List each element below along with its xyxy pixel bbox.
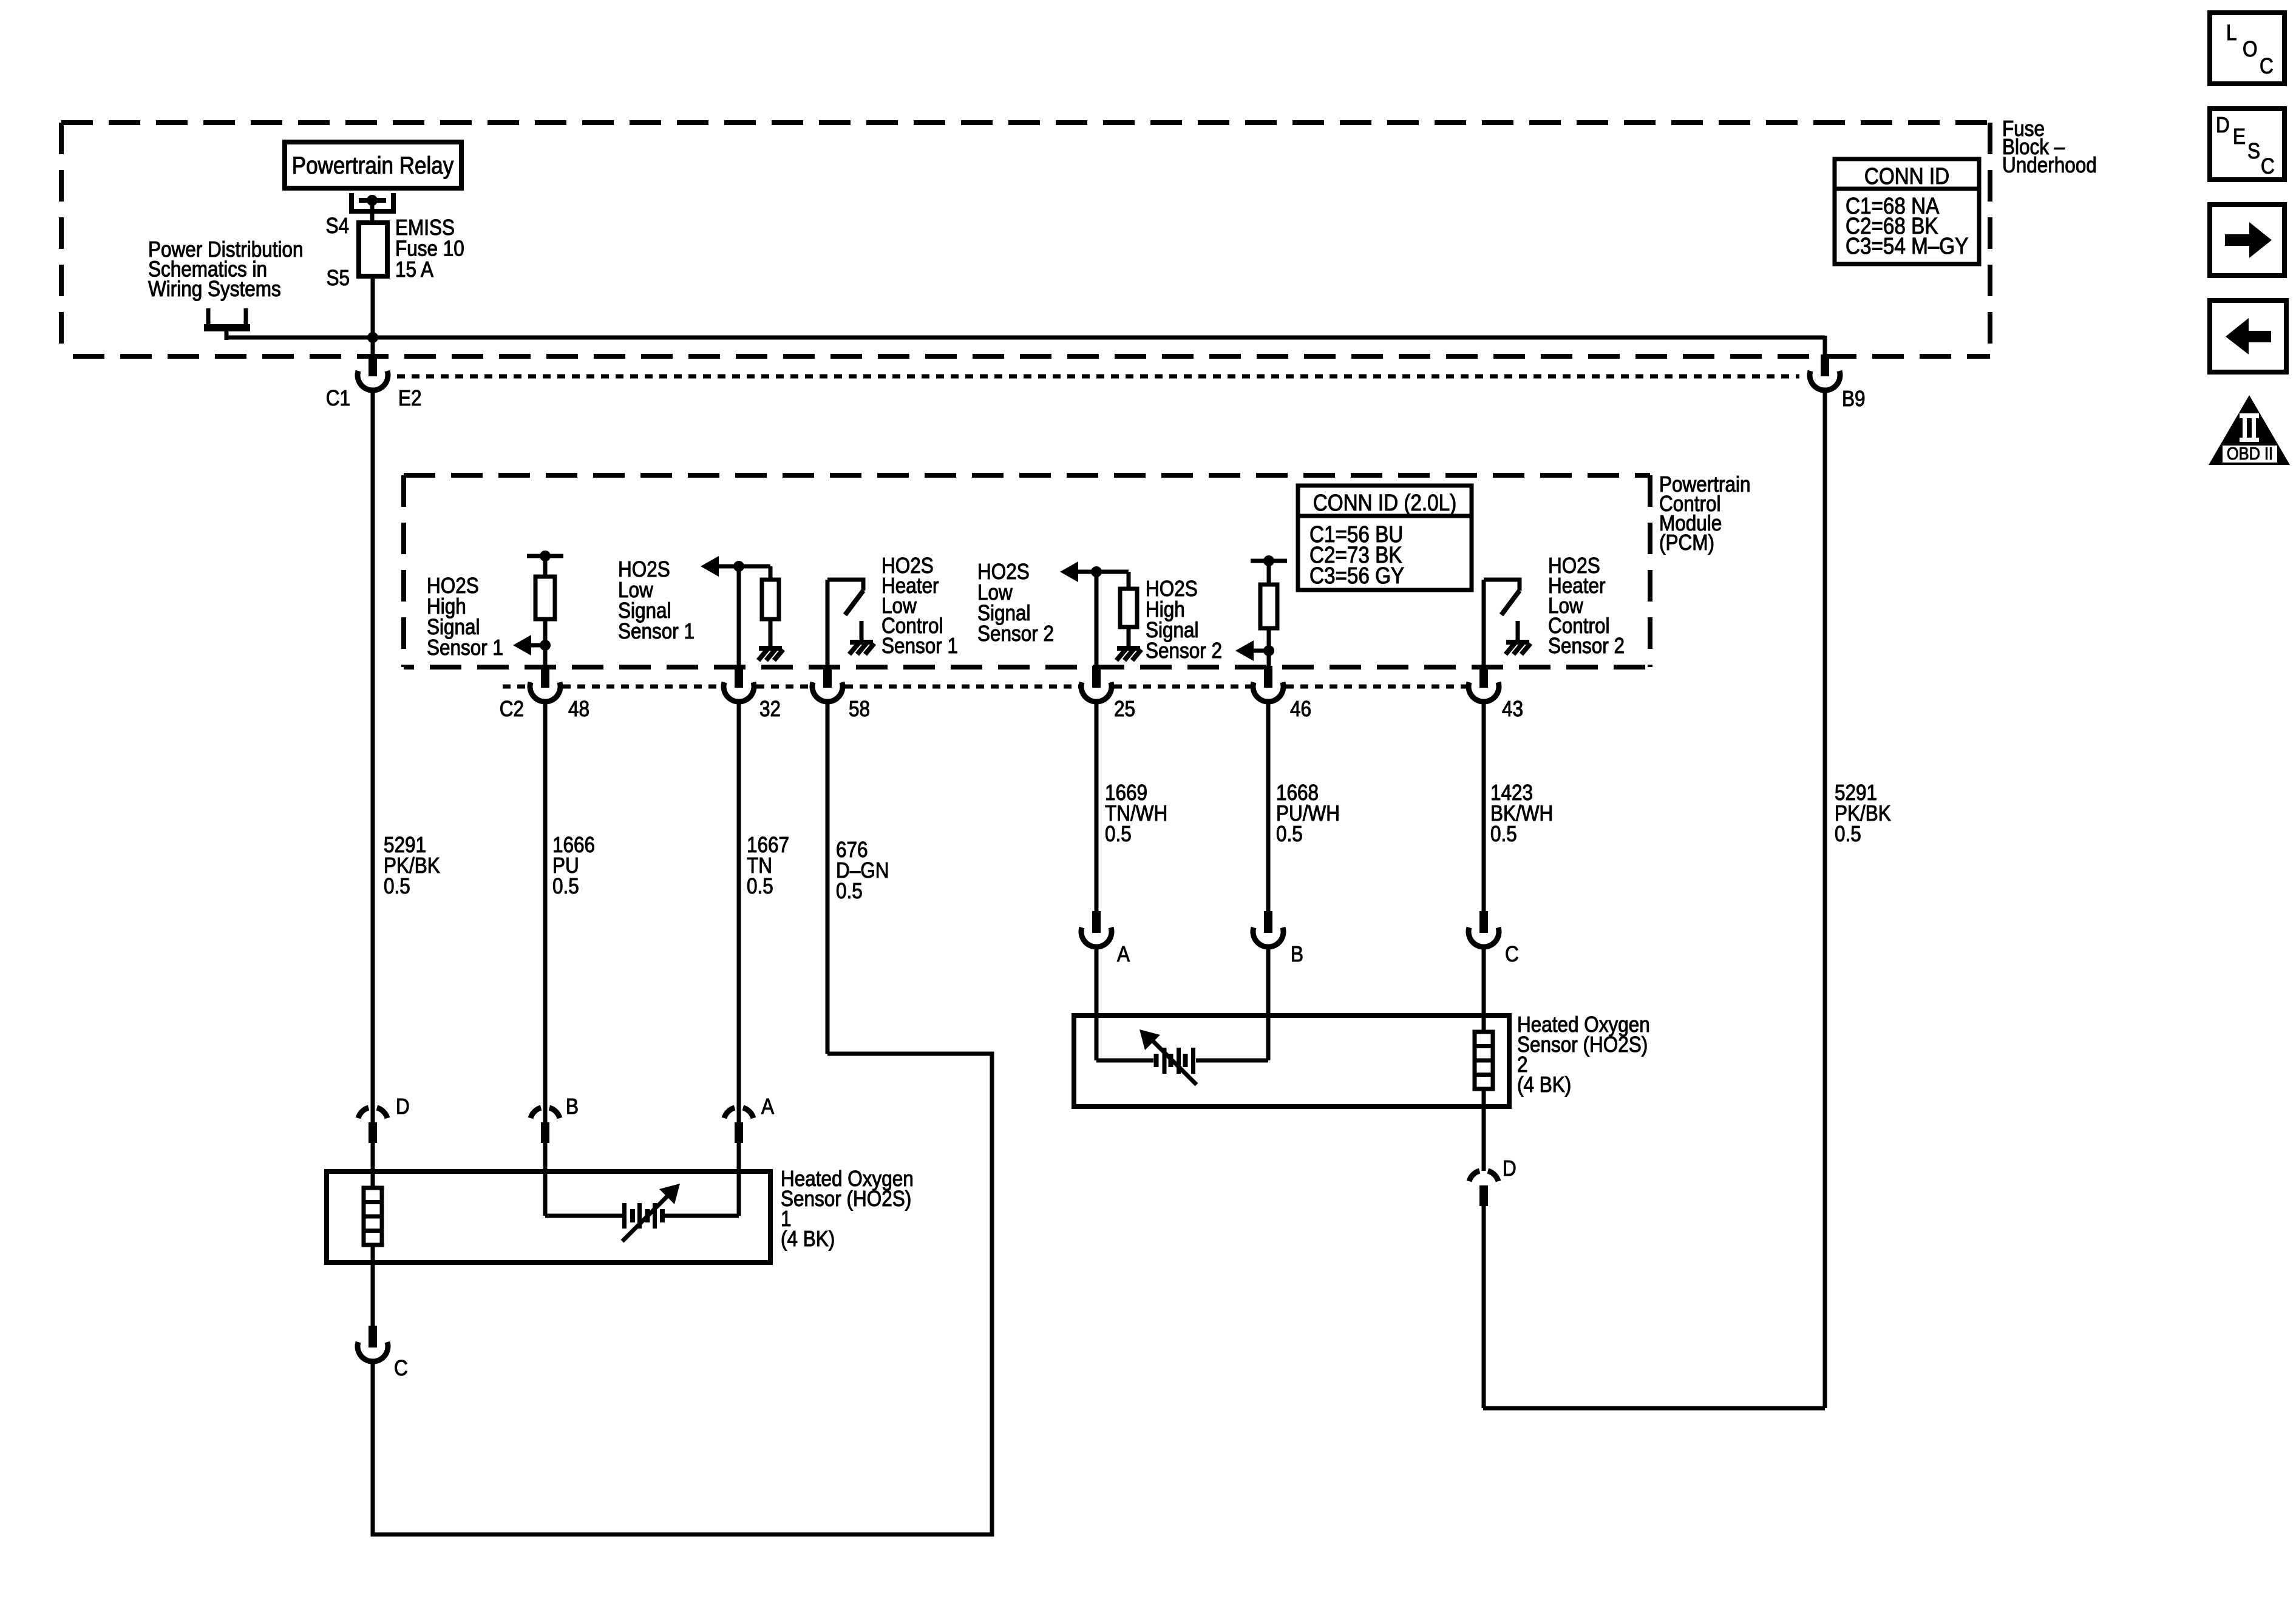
svg-text:O: O [2243, 37, 2258, 61]
svg-text:0.5: 0.5 [836, 879, 863, 903]
svg-text:D: D [396, 1094, 410, 1119]
svg-text:B: B [1291, 942, 1303, 966]
svg-text:S4: S4 [325, 214, 349, 238]
svg-text:B: B [566, 1094, 579, 1119]
svg-text:Sensor 2: Sensor 2 [1146, 639, 1222, 663]
svg-text:Sensor (HO2S): Sensor (HO2S) [781, 1187, 911, 1211]
svg-text:Sensor 1: Sensor 1 [618, 619, 695, 643]
svg-text:A: A [1117, 942, 1130, 966]
svg-text:(4 BK): (4 BK) [1517, 1073, 1571, 1097]
svg-text:C2: C2 [500, 697, 524, 721]
svg-text:48: 48 [568, 697, 589, 721]
svg-text:Sensor (HO2S): Sensor (HO2S) [1517, 1032, 1648, 1057]
svg-text:(PCM): (PCM) [1659, 531, 1714, 555]
svg-text:S5: S5 [326, 266, 350, 290]
svg-text:C1: C1 [326, 386, 350, 410]
svg-text:46: 46 [1290, 697, 1311, 721]
svg-text:15 A: 15 A [395, 257, 433, 282]
svg-text:CONN ID: CONN ID [1864, 163, 1949, 189]
svg-text:E: E [2233, 124, 2246, 149]
svg-text:C: C [1505, 942, 1519, 966]
svg-text:A: A [761, 1094, 774, 1119]
svg-text:Powertrain Relay: Powertrain Relay [292, 152, 454, 179]
svg-text:Sensor 2: Sensor 2 [977, 622, 1054, 646]
svg-text:32: 32 [759, 697, 781, 721]
svg-text:C: C [2261, 154, 2275, 178]
svg-text:D: D [2216, 113, 2230, 137]
svg-text:C3=54 M–GY: C3=54 M–GY [1846, 233, 1968, 259]
svg-text:Wiring Systems: Wiring Systems [148, 277, 281, 301]
svg-text:B9: B9 [1842, 387, 1866, 411]
svg-text:Sensor 1: Sensor 1 [427, 636, 503, 660]
svg-text:OBD II: OBD II [2227, 443, 2273, 463]
svg-text:0.5: 0.5 [384, 874, 410, 898]
svg-text:(4 BK): (4 BK) [781, 1227, 835, 1251]
svg-text:C3=56 GY: C3=56 GY [1309, 563, 1404, 589]
svg-text:Sensor 1: Sensor 1 [881, 634, 958, 658]
svg-text:S: S [2247, 139, 2260, 163]
svg-text:58: 58 [849, 697, 870, 721]
svg-text:0.5: 0.5 [1490, 822, 1517, 846]
svg-text:25: 25 [1114, 697, 1135, 721]
svg-text:L: L [2226, 21, 2237, 45]
svg-text:D: D [1503, 1156, 1517, 1181]
svg-text:Underhood: Underhood [2002, 153, 2097, 177]
svg-text:0.5: 0.5 [552, 874, 579, 898]
svg-text:C: C [2260, 54, 2274, 78]
svg-text:43: 43 [1502, 697, 1523, 721]
svg-text:CONN ID (2.0L): CONN ID (2.0L) [1313, 490, 1456, 516]
svg-text:0.5: 0.5 [1105, 822, 1132, 846]
svg-text:E2: E2 [398, 386, 422, 410]
svg-text:C: C [394, 1356, 408, 1380]
svg-text:Sensor 2: Sensor 2 [1548, 634, 1625, 658]
svg-text:0.5: 0.5 [1276, 822, 1303, 846]
svg-text:0.5: 0.5 [1835, 822, 1861, 846]
svg-text:0.5: 0.5 [747, 874, 773, 898]
